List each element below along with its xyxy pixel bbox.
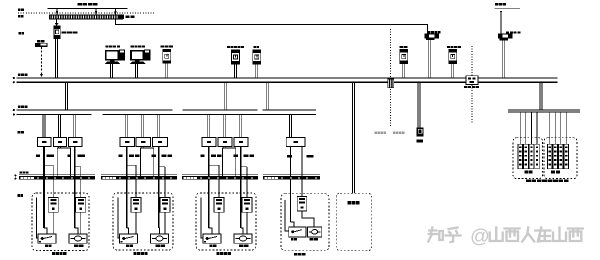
svg-text:@: @ — [470, 226, 490, 248]
